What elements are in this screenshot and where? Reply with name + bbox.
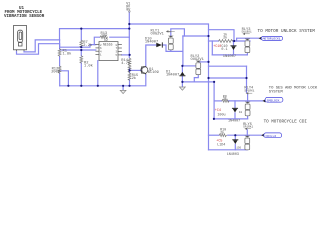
svg-text:SYSTEM: SYSTEM: [269, 91, 284, 95]
resistor R7: [80, 40, 83, 47]
svg-text:SP1RK1: SP1RK1: [243, 126, 253, 129]
wire comp C top stub: [246, 130, 248, 136]
relay RL1: [168, 36, 174, 50]
svg-text:TO MOTORCYCLE CDI: TO MOTORCYCLE CDI: [264, 120, 308, 125]
wire R13 right: [110, 36, 130, 38]
svg-text:100u: 100u: [217, 114, 225, 118]
svg-text:1.0k: 1.0k: [84, 64, 94, 69]
wire D1 hang: [181, 66, 183, 72]
svg-text:2.2k: 2.2k: [83, 43, 93, 48]
wire D10 to relay1 bottom row: [163, 45, 183, 51]
wire pill A jog: [237, 38, 259, 41]
ground symbol main: [120, 86, 126, 94]
svg-text:OUG2V1: OUG2V1: [151, 32, 165, 36]
wire comp A bottom stub: [246, 53, 248, 55]
wire V214: [213, 82, 215, 119]
diode DB: [232, 108, 237, 112]
wire node B to 555: [60, 49, 96, 51]
wire R1 top: [59, 40, 61, 49]
wire ground bus: [60, 75, 146, 86]
wire node A to 555 pin jog: [60, 45, 96, 48]
wire feed A right: [233, 40, 250, 42]
svg-text:VIBRATION SENSOR: VIBRATION SENSOR: [4, 15, 45, 19]
wire cluster A bottom: [212, 54, 247, 56]
svg-text:+C4: +C4: [215, 109, 221, 113]
wire R12 elbow loop: [60, 71, 69, 86]
svg-text:1N4007: 1N4007: [145, 40, 158, 44]
diode D10: [145, 37, 162, 47]
resistor R1: [58, 49, 61, 56]
wire R1 to R12: [59, 56, 61, 66]
wire relay1 top link: [171, 29, 185, 36]
wire comp B top feed: [246, 66, 248, 92]
wire sensor left pin staircase: [17, 44, 60, 55]
wire top east and long right rail: [129, 24, 208, 150]
svg-text:0.1: 0.1: [221, 48, 227, 52]
svg-text:CDIcut: CDIcut: [266, 135, 277, 138]
capacitor C10 labels cluster A: [213, 33, 236, 59]
wire section C feed: [209, 134, 220, 136]
wire cluster A left hang: [211, 41, 213, 55]
svg-text:SP1RK1: SP1RK1: [244, 89, 254, 92]
sensor U1 body: [14, 26, 27, 52]
wire V1 down: [128, 12, 130, 58]
svg-text:2k: 2k: [220, 130, 224, 135]
label pill A: [259, 36, 283, 40]
power V1 port symbol: [128, 11, 130, 13]
wire R13 left: [94, 37, 99, 44]
resistor cluster B: [222, 100, 229, 103]
diode DC: [233, 140, 238, 144]
op-amp-timer U2 NE555: [96, 39, 122, 61]
svg-text:1.8k: 1.8k: [63, 52, 73, 57]
wire base node to Q1: [130, 69, 142, 71]
svg-text:BC109: BC109: [148, 71, 159, 75]
wire cluster B bottom: [214, 118, 248, 120]
wire Q1 collector up: [146, 45, 156, 67]
resistor cluster A horizontal: [219, 40, 233, 43]
resistor R12: [58, 66, 61, 73]
svg-text:2k: 2k: [223, 97, 227, 102]
resistor cluster C: [219, 134, 226, 137]
wire comp B top stub: [247, 94, 249, 101]
resistor R13: [100, 36, 107, 39]
wire R14 to base node: [129, 68, 131, 73]
svg-text:2k: 2k: [132, 76, 137, 81]
relay comp B: [245, 102, 251, 116]
wire relay1 bottom stub: [170, 50, 172, 52]
wire row y81.9: [182, 81, 214, 83]
wire 555 ground: [97, 61, 99, 86]
wire sensor right pin staircase: [24, 40, 60, 52]
svg-text:150: 150: [236, 147, 241, 150]
diode D1: [180, 72, 185, 76]
relay comp A: [245, 39, 251, 53]
wire relay2 top pin: [200, 61, 209, 63]
power V1 labels: [126, 3, 131, 13]
wire section B feed: [214, 100, 222, 102]
svg-text:1N4007: 1N4007: [223, 55, 236, 59]
relay comp C: [245, 136, 251, 150]
capacitor C5 labels cluster C: [216, 129, 239, 158]
wire diode A stubs: [233, 41, 235, 45]
svg-text:MOTORLOCK1: MOTORLOCK1: [263, 38, 281, 41]
wire loop A: [209, 30, 235, 41]
svg-text:10: 10: [239, 111, 243, 114]
svg-text:TO MOTOR UNLOCK SYSTEM: TO MOTOR UNLOCK SYSTEM: [258, 29, 316, 34]
capacitor C4 labels cluster B: [215, 95, 240, 123]
wire +12V rail: [60, 29, 130, 40]
wire below 2k to ground bus: [129, 80, 131, 86]
wire cluster C bottom: [209, 149, 248, 151]
wire 555 pin7 to node: [122, 54, 130, 56]
svg-text:L1D4: L1D4: [217, 143, 225, 147]
sensor U1 labels: [4, 7, 45, 19]
svg-text:OUG2V1: OUG2V1: [191, 58, 205, 62]
wire R2 branch: [80, 50, 82, 56]
svg-text:4.7k: 4.7k: [121, 61, 131, 66]
svg-text:1N4007: 1N4007: [228, 120, 240, 124]
wire R12 bottom to bus: [59, 73, 61, 86]
wire rung y66: [209, 65, 247, 67]
wire relay2 bottom elbow: [194, 75, 198, 82]
svg-text:DU1B01: DU1B01: [242, 31, 252, 34]
wire diode B stubs: [234, 101, 236, 108]
wire feed A left: [209, 40, 219, 42]
resistor R2: [80, 56, 83, 63]
wire D1 to dot: [181, 76, 183, 82]
wire R7 branch: [80, 29, 82, 41]
resistor R15 2k: [128, 73, 131, 80]
svg-text:NE555: NE555: [103, 42, 113, 46]
svg-text:2k: 2k: [223, 35, 227, 40]
label pill C: [261, 133, 281, 138]
relay RL2: [196, 61, 202, 75]
label pill B: [263, 97, 283, 102]
ground symbol D1: [180, 82, 186, 90]
resistor R14: [128, 58, 131, 65]
svg-text:1N4007: 1N4007: [166, 74, 179, 78]
wire R2 bottom: [80, 63, 82, 86]
svg-text:SMSLOCK: SMSLOCK: [267, 99, 280, 102]
transistor Q1: [141, 66, 159, 74]
svg-text:+C10: +C10: [213, 45, 221, 49]
wire comp B bottom stub: [247, 116, 249, 119]
diode DA: [231, 46, 236, 50]
svg-text:200K: 200K: [51, 70, 61, 74]
svg-text:1N4003: 1N4003: [227, 153, 239, 157]
wire D1 top row: [182, 36, 184, 66]
wire rung y78: [209, 77, 247, 79]
wire diode C stubs: [234, 135, 236, 139]
